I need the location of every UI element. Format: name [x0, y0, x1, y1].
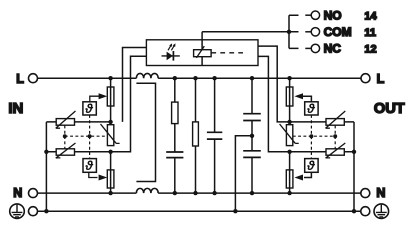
varistor U2 (IN L-N) — [101, 124, 120, 146]
LED D1 — [162, 43, 180, 60]
relay coil K1 — [194, 40, 212, 66]
wire L line left segment — [38, 77, 137, 79]
wire monitor box left lead 2 — [112, 56, 146, 152]
node B2 junction dot — [287, 150, 291, 154]
wire N line right segment — [158, 192, 361, 194]
svg-text:N: N — [376, 186, 385, 200]
arrow from T1 to F1 — [90, 93, 107, 102]
fuse F4 thermal disconnect OUT-N branch — [286, 152, 293, 193]
svg-text:ϑ: ϑ — [306, 101, 315, 116]
dashed thermal link right sensors — [310, 115, 312, 159]
wire right varistor common node to PE — [353, 122, 355, 211]
dashed thermal link right horizontal — [293, 135, 335, 137]
resistor R1 — [172, 78, 178, 152]
varistor U3 (IN N-PE) — [46, 143, 110, 158]
varistor U4 (OUT L-PE) — [290, 111, 354, 128]
capacitor C2 — [207, 78, 222, 193]
dashed thermal link right varistors — [334, 126, 336, 149]
thermal sensor T4 box — [305, 158, 318, 173]
svg-text:ϑ: ϑ — [84, 158, 93, 173]
thermal sensor T3 box — [305, 101, 318, 116]
wire L line right segment — [158, 77, 361, 79]
resistor R2 — [193, 78, 199, 193]
node B junction dot — [108, 150, 112, 154]
terminal L output circle — [361, 74, 370, 83]
capacitor C3 upper Y-cap — [243, 78, 261, 151]
varistor U6 (OUT N-PE) — [290, 143, 354, 158]
terminal PE output circle — [361, 207, 370, 216]
fuse F2 thermal disconnect IN-N branch — [107, 152, 114, 193]
varistor U5 (OUT L-N) — [280, 124, 299, 146]
varistor U1 (IN L-PE) — [46, 111, 110, 128]
wire relay to contact bracket — [202, 32, 298, 40]
terminal L input circle — [29, 74, 38, 83]
node A junction dot — [108, 76, 112, 80]
dashed relay actuation link — [211, 52, 243, 54]
svg-text:12: 12 — [364, 44, 376, 56]
terminal N output circle — [361, 189, 370, 198]
terminal NC circle — [305, 44, 319, 52]
ground PE input symbol — [10, 204, 25, 219]
thermal sensor T1 box — [83, 101, 96, 116]
terminal NO circle — [305, 11, 319, 19]
svg-text:NO: NO — [324, 8, 342, 22]
dashed thermal link left sensors — [89, 115, 91, 159]
thermal sensor T2 box — [83, 158, 96, 173]
inductor L2 (N-line winding of common-mode choke) — [136, 188, 158, 193]
terminal PE input circle — [29, 207, 38, 216]
capacitor C1 — [166, 152, 183, 193]
wire choke core coupling bracket — [136, 83, 155, 181]
arrow from T2 to F2 — [89, 172, 107, 180]
inductor L1 (L-line winding of common-mode choke) — [136, 73, 158, 78]
svg-text:14: 14 — [364, 10, 377, 22]
dashed thermal link left horizontal — [65, 135, 108, 137]
svg-text:ϑ: ϑ — [84, 101, 93, 116]
wire N line left segment — [38, 192, 137, 194]
fuse F3 thermal disconnect OUT-L branch — [286, 78, 293, 122]
svg-text:L: L — [16, 72, 24, 86]
capacitor C4 lower Y-cap — [243, 151, 261, 193]
arrow from T3 to F3 — [294, 93, 311, 102]
svg-text:L: L — [377, 72, 385, 86]
svg-text:N: N — [13, 186, 22, 200]
svg-text:NC: NC — [324, 42, 342, 56]
svg-text:COM: COM — [324, 25, 352, 39]
terminal COM circle — [305, 28, 319, 36]
svg-text:ϑ: ϑ — [306, 158, 315, 173]
wire left varistor common node to PE — [45, 122, 47, 211]
arrow from T4 to F4 — [294, 172, 311, 180]
wire PE ground line — [38, 210, 361, 212]
ground PE output symbol — [374, 204, 389, 219]
wire monitor box left lead 1 — [123, 48, 147, 122]
dashed thermal link left varistors — [64, 126, 66, 149]
svg-text:IN: IN — [8, 100, 23, 117]
wire Y-cap midpoint to PE — [235, 136, 252, 211]
svg-text:11: 11 — [364, 27, 376, 39]
fuse F1 thermal disconnect IN-L branch — [107, 78, 114, 122]
terminal N input circle — [29, 189, 38, 198]
monitor box U7 — [146, 40, 258, 66]
wire monitor box right lead 1 — [258, 46, 288, 122]
svg-text:OUT: OUT — [374, 101, 405, 117]
wire contact bracket — [289, 15, 299, 48]
wire monitor box right lead 2 — [258, 56, 288, 151]
